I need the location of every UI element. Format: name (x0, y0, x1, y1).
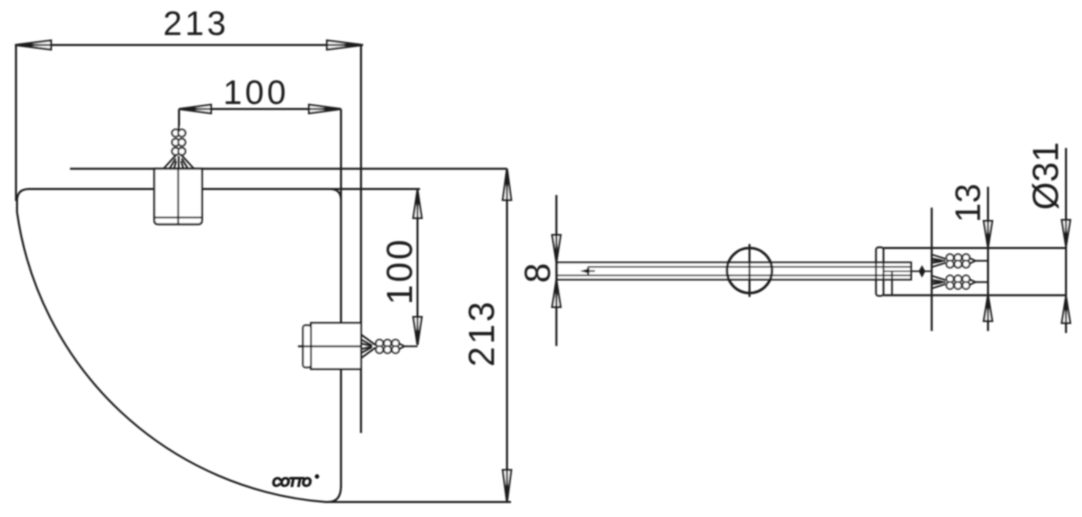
extension line right of 100-dim / shelf right edge (340, 109, 342, 488)
glass centre stub with arrowhead (580, 268, 595, 274)
screw S2 flare into right wall (361, 335, 376, 359)
svg-text:Ø31: Ø31 (1025, 142, 1066, 210)
dimension 100 horizontal: arrows (179, 105, 341, 113)
holder cap (side view) (876, 247, 884, 296)
extension line from screw 1 (178, 109, 180, 126)
wall line (side view) (931, 208, 933, 331)
glass end step inside holder (891, 271, 893, 295)
COTTO logo (272, 474, 319, 489)
screw S3 beads (946, 254, 969, 268)
wall vertical (right) / extension line (360, 45, 362, 433)
centre stub with diamond (884, 265, 932, 277)
extension line left (shelf left edge) (15, 45, 17, 201)
screw S4 axis to dim line (976, 281, 989, 283)
screw S4 (lower, side view) flare (932, 276, 946, 289)
svg-text:8: 8 (517, 263, 558, 283)
screw S2 axis to dim line (405, 345, 418, 347)
dimension Ø31: dim line (1065, 148, 1067, 333)
shelf top edge (extends right as extension line for vertical 100 dim) (29, 188, 420, 190)
dimension 213 horizontal: arrows (15, 41, 363, 50)
svg-text:COTTO: COTTO (272, 476, 312, 490)
screw S2 tip (399, 344, 405, 350)
dimension 8: dim line (555, 195, 557, 346)
screw S3 (upper, side view) flare (932, 255, 946, 268)
svg-text:100: 100 (379, 237, 420, 305)
shelf outline: top-left corner fillet (17, 189, 29, 201)
screw S3 axis to dim line (976, 260, 989, 262)
screw S4 tip (970, 279, 976, 285)
holder top edge + extension to Ø31 (884, 247, 1068, 249)
shelf outline: big quarter arc with left stub (17, 199, 333, 502)
bracket B1 body (top wall) (154, 169, 202, 225)
screw S1 beads (wall anchor above top wall) (172, 129, 185, 155)
svg-text:213: 213 (461, 299, 502, 367)
section circle (727, 248, 772, 293)
wall horizontal (top) (70, 168, 507, 170)
dimension Ø31: arrows (1062, 220, 1070, 323)
dimension 213 vertical: dim line (506, 169, 508, 502)
glass inner tick (587, 267, 589, 276)
screw S3 tip (970, 258, 976, 264)
screw S1 tip (178, 126, 180, 130)
dimension 100 horizontal: dim line (179, 108, 341, 110)
dimension 213 vertical: arrows (503, 169, 511, 502)
glass plate outline (557, 263, 911, 280)
screw S2 beads (376, 340, 399, 354)
dimension 213 horizontal: dim line (15, 44, 363, 46)
shelf outline: bottom-right corner fillet (328, 486, 341, 502)
dimension 13: dim line (987, 187, 989, 331)
dimension 8: arrows (552, 235, 560, 307)
dimension 100 vertical: dim line (417, 190, 419, 345)
dimension 100 vertical: arrows (413, 190, 421, 345)
section circle centre line (749, 244, 751, 297)
screw S1 flare into wall (164, 155, 194, 169)
shelf outline: top-right corner fillet (330, 189, 341, 200)
svg-text:100: 100 (223, 74, 289, 112)
screw S4 beads (946, 275, 969, 289)
holder bottom edge + extension to Ø31 (884, 294, 1068, 296)
bottom extension line (331, 501, 511, 503)
bracket B2 body (right wall) (298, 323, 361, 369)
glass inner line upper (588, 266, 911, 268)
glass inner line lower (557, 274, 911, 276)
svg-text:213: 213 (163, 5, 229, 43)
svg-text:13: 13 (949, 184, 988, 223)
dimension 13: arrows (984, 221, 992, 321)
